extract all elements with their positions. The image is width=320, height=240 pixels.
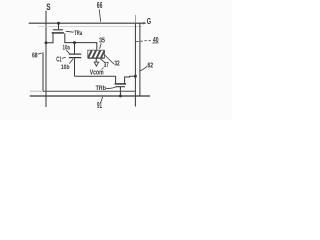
transistor TRb source leg from common wire: [115, 76, 117, 83]
arrow head of gate line pointing right: [143, 22, 146, 25]
leader 37 curve: [100, 59, 104, 62]
liquid crystal cell 35 box: [88, 50, 105, 58]
svg-text:37: 37: [104, 62, 109, 69]
svg-text:10b: 10b: [61, 64, 70, 71]
svg-text:G: G: [147, 17, 151, 26]
dashed leader 40: [136, 40, 152, 42]
label 91: [97, 101, 102, 110]
liquid crystal cell 35 bottom electrode thick edge: [88, 57, 105, 59]
label 68: [32, 51, 38, 60]
node G label: [147, 17, 151, 26]
wire source line S vertical: [45, 11, 47, 107]
svg-text:35: 35: [99, 38, 105, 45]
leader 91: [101, 97, 103, 103]
leader 10b: [69, 59, 73, 64]
svg-text:C1: C1: [56, 57, 61, 64]
label C1: [56, 57, 61, 64]
label 37: [104, 62, 109, 69]
node S label: [46, 2, 50, 12]
wire line 40 right vertical: [139, 23, 141, 96]
leader 37 tail: [101, 68, 103, 70]
leader 68: [38, 53, 42, 54]
leader TRa: [66, 30, 74, 33]
wire source line 68 stub vertical: [42, 52, 44, 91]
wire gate line 91 horizontal: [30, 95, 150, 97]
leader 10a: [66, 50, 69, 54]
leader 66: [99, 9, 101, 21]
junction dot TRb gate on line 91: [119, 94, 122, 97]
junction dot gate of TRa: [57, 22, 60, 25]
transistor TRa source leg: [46, 33, 53, 42]
transistor TRb gate lead: [119, 87, 121, 96]
svg-text:Vcom: Vcom: [90, 69, 104, 76]
label 66: [97, 1, 103, 10]
leader 62: [140, 66, 147, 71]
wire pixel node horizontal: [65, 43, 97, 51]
transistor TRb channel bar: [115, 83, 126, 85]
leader C1: [62, 57, 66, 58]
leader 32 curve: [105, 55, 114, 64]
label 10a: [63, 45, 71, 52]
svg-text:32: 32: [114, 61, 119, 68]
label TRb: [96, 85, 106, 92]
leader 35: [100, 43, 102, 48]
wire common line 62 left vertical: [134, 15, 136, 23]
svg-text:91: 91: [97, 101, 102, 110]
transistor TRa channel bar: [52, 32, 64, 34]
leader TRb: [106, 87, 117, 89]
svg-text:68: 68: [32, 51, 38, 60]
Vcom terminal open triangle: [94, 62, 98, 66]
transistor TRb gate bar: [116, 86, 125, 88]
transistor TRa drain leg: [64, 33, 67, 42]
label TRa: [74, 30, 82, 37]
transistor TRb drain leg: [125, 76, 136, 83]
wire gate line faint echo: [38, 25, 142, 27]
junction dot on S line: [45, 41, 48, 44]
label 40 underlined: [153, 35, 159, 44]
underline of 40: [152, 42, 158, 44]
capacitor C1 top plate: [69, 53, 82, 55]
label 10b: [61, 64, 70, 71]
wire Vcom terminal lead: [95, 58, 97, 62]
wire storage line horizontal faint left: [30, 90, 43, 92]
svg-text:66: 66: [97, 1, 103, 10]
label 62: [148, 62, 154, 69]
svg-text:S: S: [46, 2, 50, 12]
capacitor C1 bottom plate: [69, 57, 82, 59]
label Vcom: [90, 69, 104, 76]
junction dot capacitor branch: [73, 41, 76, 44]
transistor TRa gate lead: [58, 23, 60, 29]
label 35: [99, 38, 105, 45]
capacitor C1 bottom lead: [74, 58, 76, 77]
wire common connection horizontal 37: [75, 75, 116, 77]
liquid crystal cell 35 hatching: [88, 50, 104, 57]
capacitor C1 top lead: [74, 43, 76, 54]
svg-text:62: 62: [148, 62, 154, 69]
wire storage line horizontal: [43, 90, 135, 92]
wire gate line G horizontal: [29, 22, 143, 24]
junction dot TRb drain on line 62: [134, 75, 137, 78]
svg-text:TRa: TRa: [74, 30, 82, 37]
label 32: [114, 61, 119, 68]
transistor TRa gate bar: [53, 29, 63, 31]
